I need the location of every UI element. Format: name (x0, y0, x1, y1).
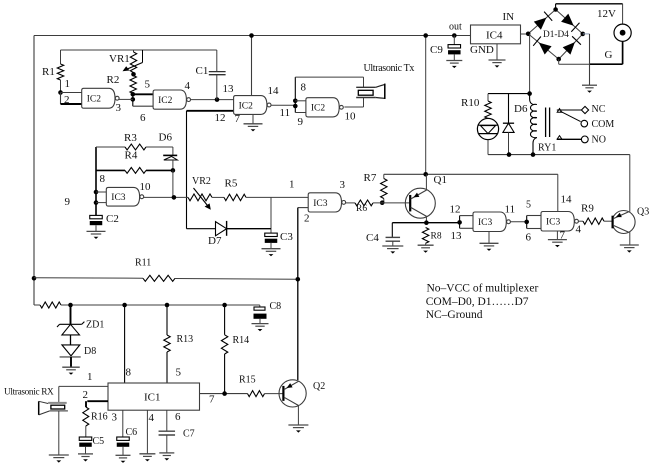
svg-text:7: 7 (235, 113, 241, 125)
node R14 bottom junction (222, 391, 227, 396)
resistor R6 (346, 200, 410, 214)
svg-text:13: 13 (451, 230, 463, 242)
relay contact COM (581, 119, 614, 130)
wire (212, 196, 224, 198)
potentiometer VR2 (188, 176, 212, 210)
resistor R16 (83, 407, 108, 437)
svg-text:IC3: IC3 (111, 193, 126, 203)
resistor R5 (224, 178, 246, 201)
wire (297, 208, 299, 380)
relay contact NO (557, 135, 606, 146)
label pin 8 (301, 82, 307, 94)
svg-text:IC3: IC3 (478, 218, 493, 228)
ground (78, 454, 93, 462)
node Q1 collector bus junction (423, 172, 428, 177)
svg-text:6: 6 (140, 112, 146, 124)
label Ultrasonic RX (4, 388, 54, 398)
resistor R10 (461, 94, 491, 119)
wire (61, 92, 82, 94)
bridge rectifier D1-D4 (528, 10, 583, 60)
wire (629, 155, 631, 212)
capacitor C5 (79, 436, 104, 454)
wire (251, 36, 253, 96)
svg-text:14: 14 (561, 194, 573, 206)
resistor R11 (34, 258, 298, 282)
svg-text:10: 10 (140, 181, 152, 193)
label pin 6 (175, 411, 181, 423)
capacitor C2 (90, 213, 119, 231)
node ZD1 junction (68, 303, 73, 308)
ground (252, 324, 269, 332)
wire (295, 112, 306, 114)
diode D6 (503, 94, 528, 155)
svg-text:C8: C8 (270, 301, 282, 312)
wire (557, 174, 559, 211)
svg-text:2: 2 (83, 389, 89, 401)
capacitor C8 (254, 301, 282, 324)
ultrasonic RX transducer (39, 386, 68, 415)
relay core (546, 108, 550, 138)
wire (487, 140, 489, 155)
svg-text:1: 1 (289, 179, 295, 191)
label pin 6 (140, 112, 146, 124)
resistor R4 (96, 150, 173, 174)
label pin 14 (561, 194, 573, 206)
nand gate IC3a (106, 187, 143, 206)
ground (446, 61, 462, 69)
svg-text:C3: C3 (280, 231, 293, 243)
resistor R14 (221, 305, 249, 394)
node IC3c input junction (457, 220, 462, 225)
svg-text:ZD1: ZD1 (86, 320, 104, 331)
wire (59, 385, 108, 387)
svg-text:R5: R5 (225, 178, 238, 190)
resistor R8 (422, 228, 441, 246)
diode D7 (187, 221, 272, 247)
svg-text:IC1: IC1 (144, 392, 161, 404)
svg-text:VR2: VR2 (192, 176, 211, 187)
svg-text:IC4: IC4 (486, 30, 503, 42)
svg-text:R10: R10 (461, 97, 480, 109)
svg-text:3: 3 (340, 179, 346, 191)
capacitor C6 (117, 410, 137, 455)
label pin 6 (526, 232, 532, 244)
resistor R1 (42, 50, 64, 93)
ground (116, 455, 131, 463)
wire (172, 170, 174, 197)
nand gate IC2a (82, 88, 119, 108)
svg-text:1: 1 (87, 371, 93, 383)
nand gate IC3c (473, 212, 510, 232)
wire (133, 94, 153, 106)
svg-text:11: 11 (505, 204, 516, 216)
svg-text:R15: R15 (239, 375, 256, 386)
svg-text:R14: R14 (233, 335, 250, 346)
ground (244, 114, 263, 131)
svg-text:Q1: Q1 (434, 174, 447, 186)
svg-text:R16: R16 (91, 412, 108, 423)
wire (295, 100, 306, 102)
svg-text:12V: 12V (597, 8, 616, 20)
wire (384, 173, 558, 175)
svg-text:9: 9 (65, 196, 71, 208)
svg-text:R3: R3 (124, 132, 137, 144)
resistor R2 (107, 74, 137, 94)
node R4/D6 junction (171, 168, 176, 173)
svg-text:5: 5 (526, 200, 531, 211)
svg-text:C1: C1 (196, 65, 209, 77)
svg-text:14: 14 (268, 85, 280, 97)
label pin 2 (83, 389, 89, 401)
label pin 7 (560, 230, 566, 242)
label pin 5 (176, 367, 182, 379)
ground (87, 231, 106, 239)
ground (480, 232, 499, 251)
ground (489, 44, 506, 68)
wire (488, 154, 630, 156)
label pin 7 (209, 394, 215, 406)
wire (61, 49, 217, 51)
label pin 4 (185, 80, 191, 92)
svg-text:D6: D6 (514, 103, 528, 115)
node R11 right junction (296, 277, 301, 282)
label pin 7 (235, 113, 241, 125)
node coil bottom (531, 152, 536, 157)
svg-text:R9: R9 (581, 203, 594, 215)
resistor R12 (34, 302, 260, 308)
wire (146, 410, 148, 454)
wire (488, 93, 530, 95)
label pin 2 (304, 213, 310, 225)
wire (590, 41, 623, 64)
wire (363, 77, 365, 87)
svg-text:IN: IN (503, 11, 515, 23)
svg-text:IC3: IC3 (546, 218, 561, 228)
wire (583, 34, 590, 85)
capacitor C3 (265, 231, 294, 249)
label pin 4 (149, 412, 155, 424)
resistor R7 (364, 172, 388, 203)
node pin1 junction (58, 90, 63, 95)
svg-text:3: 3 (112, 412, 118, 424)
wire (33, 36, 35, 306)
svg-text:6: 6 (526, 232, 532, 244)
nand gate IC2b (153, 90, 190, 109)
svg-text:GND: GND (470, 44, 494, 56)
svg-text:4: 4 (576, 224, 582, 236)
svg-text:4: 4 (149, 412, 155, 424)
node C1 junction (215, 97, 220, 102)
potentiometer VR1 (109, 50, 143, 74)
svg-text:12: 12 (450, 204, 461, 216)
node R2 bottom junction (131, 92, 136, 97)
node pin8 junction (122, 303, 127, 308)
svg-text:C5: C5 (93, 436, 105, 447)
svg-text:R13: R13 (177, 334, 194, 345)
node relay supply junction (527, 91, 532, 96)
resistor R15 (239, 375, 283, 397)
label pin 3 (116, 102, 122, 114)
node Q1 emitter junction (424, 220, 429, 225)
node C3 junction (0, 0, 1, 1)
label pin 13 (451, 230, 463, 242)
wire (622, 4, 624, 24)
wire (133, 93, 153, 95)
node IC3a in A (94, 190, 99, 195)
wire (34, 35, 471, 37)
transistor Q2 (279, 380, 325, 407)
capacitor C9 (430, 36, 461, 61)
wire (297, 405, 299, 425)
label pin 5 (526, 200, 531, 211)
label pin 1 (87, 371, 93, 383)
svg-text:4: 4 (185, 80, 191, 92)
wire (556, 4, 623, 10)
LED indicator (477, 118, 498, 139)
svg-text:13: 13 (223, 83, 235, 95)
label Ultrasonic Tx (364, 63, 415, 74)
svg-text:IC2: IC2 (239, 101, 254, 111)
svg-text:No–VCC of multiplexer: No–VCC of multiplexer (427, 283, 539, 295)
label pin 9 (65, 196, 71, 208)
wire (270, 197, 272, 233)
svg-text:Q2: Q2 (313, 381, 325, 392)
label pin 11 (505, 204, 516, 216)
zener D6 (159, 132, 178, 171)
ground (582, 85, 597, 93)
ground (382, 246, 403, 254)
ultrasonic Tx transducer (356, 84, 385, 99)
capacitor C1 (196, 50, 226, 100)
ground (159, 453, 174, 461)
ground (262, 249, 281, 257)
wire (143, 196, 188, 198)
wire (58, 411, 60, 455)
ground (49, 455, 69, 463)
svg-text:5: 5 (145, 79, 151, 91)
svg-text:9: 9 (298, 116, 304, 128)
svg-text:D7: D7 (208, 235, 222, 247)
wire (124, 305, 126, 383)
wire (392, 222, 459, 224)
node bridge top (553, 7, 558, 12)
wire (271, 104, 295, 106)
ic IC1 (108, 383, 200, 410)
svg-text:IC2: IC2 (158, 96, 173, 106)
label pin 14 (268, 85, 280, 97)
resistor R9 (578, 203, 613, 225)
svg-text:R1: R1 (42, 66, 55, 78)
node IC3d input junction (524, 220, 529, 225)
svg-text:8: 8 (301, 82, 307, 94)
resistor R3 (96, 132, 173, 150)
node left rail junction (32, 276, 37, 281)
svg-text:Ultrasonic Tx: Ultrasonic Tx (364, 63, 415, 74)
label pin 9 (298, 116, 304, 128)
svg-text:Ultrasonic RX: Ultrasonic RX (4, 388, 54, 398)
label pin 12 (450, 204, 461, 216)
node R13 junction (165, 303, 170, 308)
nand gate IC2c (234, 96, 271, 115)
wire (95, 147, 97, 215)
label out (449, 22, 462, 33)
diode D8 (60, 345, 97, 367)
svg-text:11: 11 (280, 107, 291, 119)
svg-text:IC3: IC3 (313, 199, 328, 209)
svg-text:7: 7 (209, 394, 215, 406)
wire (96, 202, 106, 204)
svg-text:R2: R2 (107, 74, 120, 86)
node D6 bottom (507, 152, 512, 157)
wire (96, 191, 106, 193)
label 12V (597, 8, 616, 20)
connector 12V jack (614, 24, 631, 41)
wire (510, 221, 527, 223)
node out junction (452, 33, 457, 38)
wire (186, 111, 188, 229)
label pin 12 (215, 112, 226, 124)
wire (200, 393, 248, 395)
ground (288, 425, 308, 433)
ground (139, 454, 155, 462)
svg-text:VR1: VR1 (109, 53, 130, 65)
wire (86, 401, 108, 407)
svg-text:R8: R8 (431, 232, 442, 242)
ground (62, 367, 80, 375)
relay contact NC (557, 104, 606, 115)
wire (460, 216, 473, 229)
label pin 1 (289, 179, 295, 191)
svg-text:R6: R6 (356, 204, 367, 214)
nand gate IC3b (308, 193, 345, 212)
svg-text:NO: NO (592, 135, 606, 146)
svg-text:G: G (605, 49, 613, 61)
node out/VR2 junction (172, 195, 177, 200)
node Q1 base junction (380, 200, 385, 205)
svg-text:R4: R4 (125, 150, 138, 162)
label pin 1 (65, 78, 71, 90)
svg-text:D8: D8 (84, 346, 96, 357)
wire (527, 216, 541, 229)
node R14 junction (222, 303, 227, 308)
label pin 13 (223, 83, 235, 95)
wire (344, 98, 363, 108)
svg-text:RY1: RY1 (538, 143, 556, 154)
svg-text:IC2: IC2 (311, 104, 326, 114)
label G (605, 49, 613, 61)
capacitor C7 (159, 410, 195, 453)
svg-text:3: 3 (116, 102, 122, 114)
wire (521, 33, 529, 35)
label pin 8 (100, 173, 106, 185)
svg-text:C7: C7 (183, 429, 195, 440)
svg-text:2: 2 (64, 94, 70, 106)
wire (425, 36, 427, 175)
svg-text:5: 5 (176, 367, 182, 379)
svg-text:C6: C6 (126, 427, 138, 438)
relay armature (560, 111, 580, 121)
node gate1 output junction (131, 97, 136, 102)
svg-text:C9: C9 (430, 44, 443, 56)
node top bus junction (249, 33, 254, 38)
svg-text:Q3: Q3 (637, 207, 649, 218)
note text (426, 283, 539, 322)
svg-text:R7: R7 (364, 172, 377, 184)
svg-text:out: out (449, 22, 462, 33)
svg-text:C4: C4 (366, 232, 379, 244)
svg-text:6: 6 (175, 411, 181, 423)
label pin 5 (145, 79, 151, 91)
wire (298, 207, 308, 209)
svg-text:10: 10 (345, 111, 357, 123)
zener ZD1 (57, 305, 104, 345)
node gate4 in A (293, 99, 298, 104)
svg-text:12: 12 (215, 112, 226, 124)
wire (191, 99, 234, 101)
node IC3a in B (94, 200, 99, 205)
node bridge bottom (556, 57, 561, 62)
svg-text:C2: C2 (106, 213, 119, 225)
svg-text:IC2: IC2 (87, 95, 102, 105)
resistor R13 (164, 305, 193, 383)
wire (425, 174, 427, 189)
label GND (470, 44, 494, 56)
svg-text:D1-D4: D1-D4 (543, 30, 569, 40)
node gate4 in B (293, 104, 298, 109)
label pin 4 (576, 224, 582, 236)
svg-text:COM: COM (592, 119, 615, 130)
ground (620, 245, 639, 253)
label pin 3 (340, 179, 346, 191)
svg-text:8: 8 (100, 173, 106, 185)
svg-text:R11: R11 (135, 258, 151, 269)
wire (187, 110, 234, 112)
svg-text:1: 1 (65, 78, 71, 90)
wire (61, 93, 82, 105)
wire (294, 77, 296, 112)
label pin 10 (345, 111, 357, 123)
svg-text:COM–D0, D1……D7: COM–D0, D1……D7 (426, 296, 529, 308)
label IN (503, 11, 515, 23)
label pin 11 (280, 107, 291, 119)
capacitor C4 (366, 223, 400, 246)
svg-text:2: 2 (304, 213, 310, 225)
wire (295, 76, 363, 78)
nand gate IC3d (541, 212, 578, 232)
label pin 8 (126, 367, 132, 379)
wire (425, 217, 427, 223)
voltage regulator IC4 (471, 25, 521, 44)
transistor Q3 (612, 207, 649, 234)
wire (246, 196, 308, 198)
wire (559, 59, 590, 64)
svg-text:8: 8 (126, 367, 132, 379)
label pin 2 (64, 94, 70, 106)
svg-text:NC: NC (592, 104, 606, 115)
svg-text:D6: D6 (159, 132, 173, 144)
node bridge left (526, 32, 531, 37)
transistor Q1 (405, 174, 447, 218)
wire (119, 98, 133, 100)
svg-text:NC–Ground: NC–Ground (426, 309, 483, 321)
label pin 3 (112, 412, 118, 424)
wire (529, 34, 531, 94)
nand gate IC2d (306, 98, 343, 117)
node bridge right (581, 32, 586, 37)
node VR1/R2 junction (131, 72, 136, 77)
node VCC mid junction (423, 33, 428, 38)
ground (548, 231, 567, 247)
